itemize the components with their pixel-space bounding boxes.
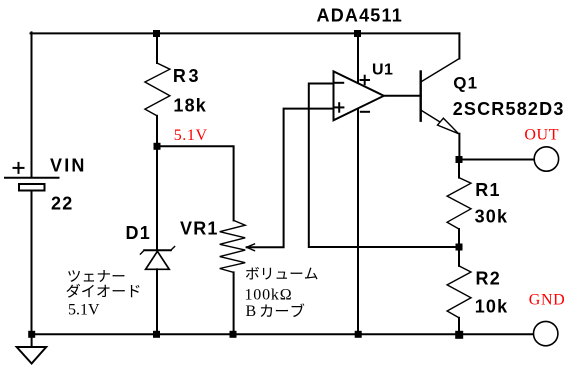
svg-text:2SCR582D3: 2SCR582D3 xyxy=(453,99,565,119)
battery VIN xyxy=(5,163,59,191)
wire emitter to OUT node xyxy=(458,134,460,160)
node OUT xyxy=(456,156,463,163)
node bottom VR1 xyxy=(230,331,237,338)
node top rail / op-amp supply xyxy=(354,30,361,37)
node top rail / R3 xyxy=(153,30,160,37)
resistor R3 xyxy=(145,63,170,116)
node feedback junction xyxy=(456,244,463,251)
ground xyxy=(17,334,47,363)
note volume line1 xyxy=(246,267,318,280)
wire bottom rail xyxy=(31,333,534,335)
node 5.1V xyxy=(154,143,161,150)
wire R1 bottom lead xyxy=(458,229,460,247)
svg-text:OUT: OUT xyxy=(524,126,559,143)
svg-text:B: B xyxy=(246,303,257,320)
svg-text:5.1V: 5.1V xyxy=(174,127,208,144)
wire R3 top lead xyxy=(156,33,158,63)
svg-text:100kΩ: 100kΩ xyxy=(245,286,293,303)
wire feedback inverting input xyxy=(309,84,459,248)
node bottom R2 xyxy=(455,331,463,339)
svg-text:18k: 18k xyxy=(173,96,207,116)
svg-text:R3: R3 xyxy=(173,66,201,86)
svg-text:Q1: Q1 xyxy=(453,73,478,92)
wire VR1 bottom lead xyxy=(233,272,235,334)
node bottom op-amp supply xyxy=(355,331,362,338)
resistor R1 xyxy=(447,178,471,229)
svg-text:U1: U1 xyxy=(372,61,393,78)
terminal OUT circle xyxy=(534,147,558,171)
note zener line2 xyxy=(66,284,139,298)
svg-text:VIN: VIN xyxy=(50,156,87,176)
wire R1 top lead xyxy=(458,160,460,178)
terminal GND circle xyxy=(534,321,558,345)
wire D1 bottom lead xyxy=(156,269,158,334)
wire left rail upper xyxy=(31,32,33,177)
svg-text:30k: 30k xyxy=(475,207,509,227)
wire wiper to op-amp non-inverting input xyxy=(247,109,334,248)
note zener line1 xyxy=(68,270,124,282)
svg-text:5.1V: 5.1V xyxy=(68,302,100,319)
wire R3 bottom lead xyxy=(156,116,158,147)
note B curve kana xyxy=(261,303,305,317)
resistor R2 xyxy=(447,266,471,318)
svg-text:VR1: VR1 xyxy=(180,219,219,239)
svg-text:ADA4511: ADA4511 xyxy=(317,5,403,25)
transistor Q1 xyxy=(421,33,460,133)
svg-text:R2: R2 xyxy=(476,268,501,288)
wire R2 bottom lead xyxy=(458,318,460,335)
zener diode D1 xyxy=(140,247,174,270)
op-amp U1 xyxy=(334,71,384,120)
wire left rail lower xyxy=(31,191,33,335)
wire OUT node to terminal xyxy=(459,159,534,161)
wire D1 top lead xyxy=(156,146,158,250)
node bottom left rail xyxy=(28,331,35,338)
svg-text:R1: R1 xyxy=(475,180,500,200)
svg-text:22: 22 xyxy=(51,193,73,213)
wire 5.1V node to VR1 xyxy=(157,146,234,220)
svg-text:D1: D1 xyxy=(126,223,151,243)
svg-text:GND: GND xyxy=(529,292,565,309)
node bottom D1 xyxy=(153,331,160,338)
potentiometer VR1 xyxy=(220,220,255,272)
wire op-amp supply vertical xyxy=(357,33,359,334)
wire top rail xyxy=(31,32,460,34)
wire op-amp output xyxy=(384,95,421,97)
wire R2 top lead xyxy=(458,247,460,266)
svg-text:10k: 10k xyxy=(475,297,509,317)
